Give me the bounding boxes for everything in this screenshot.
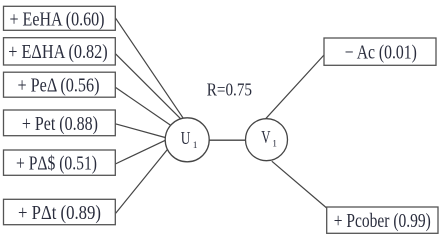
wire PDS to U1 xyxy=(115,140,165,164)
wire PDt to U1 xyxy=(116,150,168,214)
svg-text:+ EeHA (0.60): + EeHA (0.60) xyxy=(10,8,105,30)
svg-text:+ PΔ$ (0.51): + PΔ$ (0.51) xyxy=(16,153,97,175)
wire Pet to U1 xyxy=(115,124,165,138)
box Pcober xyxy=(327,207,438,233)
wire PeD to U1 xyxy=(116,87,171,125)
svg-text:+ EΔHA (0.82): + EΔHA (0.82) xyxy=(8,41,107,63)
svg-text:+ PeΔ (0.56): + PeΔ (0.56) xyxy=(18,75,100,97)
wire V1 to Pcober xyxy=(272,161,327,208)
box Ac xyxy=(324,38,436,65)
box EdHA xyxy=(4,38,116,65)
wire EdHA to U1 xyxy=(116,54,181,119)
box EeHA xyxy=(4,6,116,30)
wire U1 to V1 xyxy=(209,139,247,141)
box PeD xyxy=(4,72,116,97)
svg-text:U: U xyxy=(181,128,191,148)
svg-text:− Ac (0.01): − Ac (0.01) xyxy=(345,41,417,63)
box Pet xyxy=(4,110,116,136)
svg-text:1: 1 xyxy=(193,141,198,151)
wire EeHA to U1 xyxy=(116,18,184,118)
box PDt xyxy=(4,199,116,224)
box PDS xyxy=(4,150,116,175)
svg-text:+ PΔt (0.89): + PΔt (0.89) xyxy=(18,202,101,224)
node U1 xyxy=(165,118,209,162)
svg-text:V: V xyxy=(261,127,270,147)
svg-text:1: 1 xyxy=(272,140,277,150)
svg-text:+ Pet (0.88): + Pet (0.88) xyxy=(22,113,98,135)
node V1 xyxy=(246,119,288,161)
wire V1 to Ac xyxy=(266,55,324,119)
svg-text:R=0.75: R=0.75 xyxy=(207,79,252,99)
svg-text:+ Pcober (0.99): + Pcober (0.99) xyxy=(334,210,431,232)
